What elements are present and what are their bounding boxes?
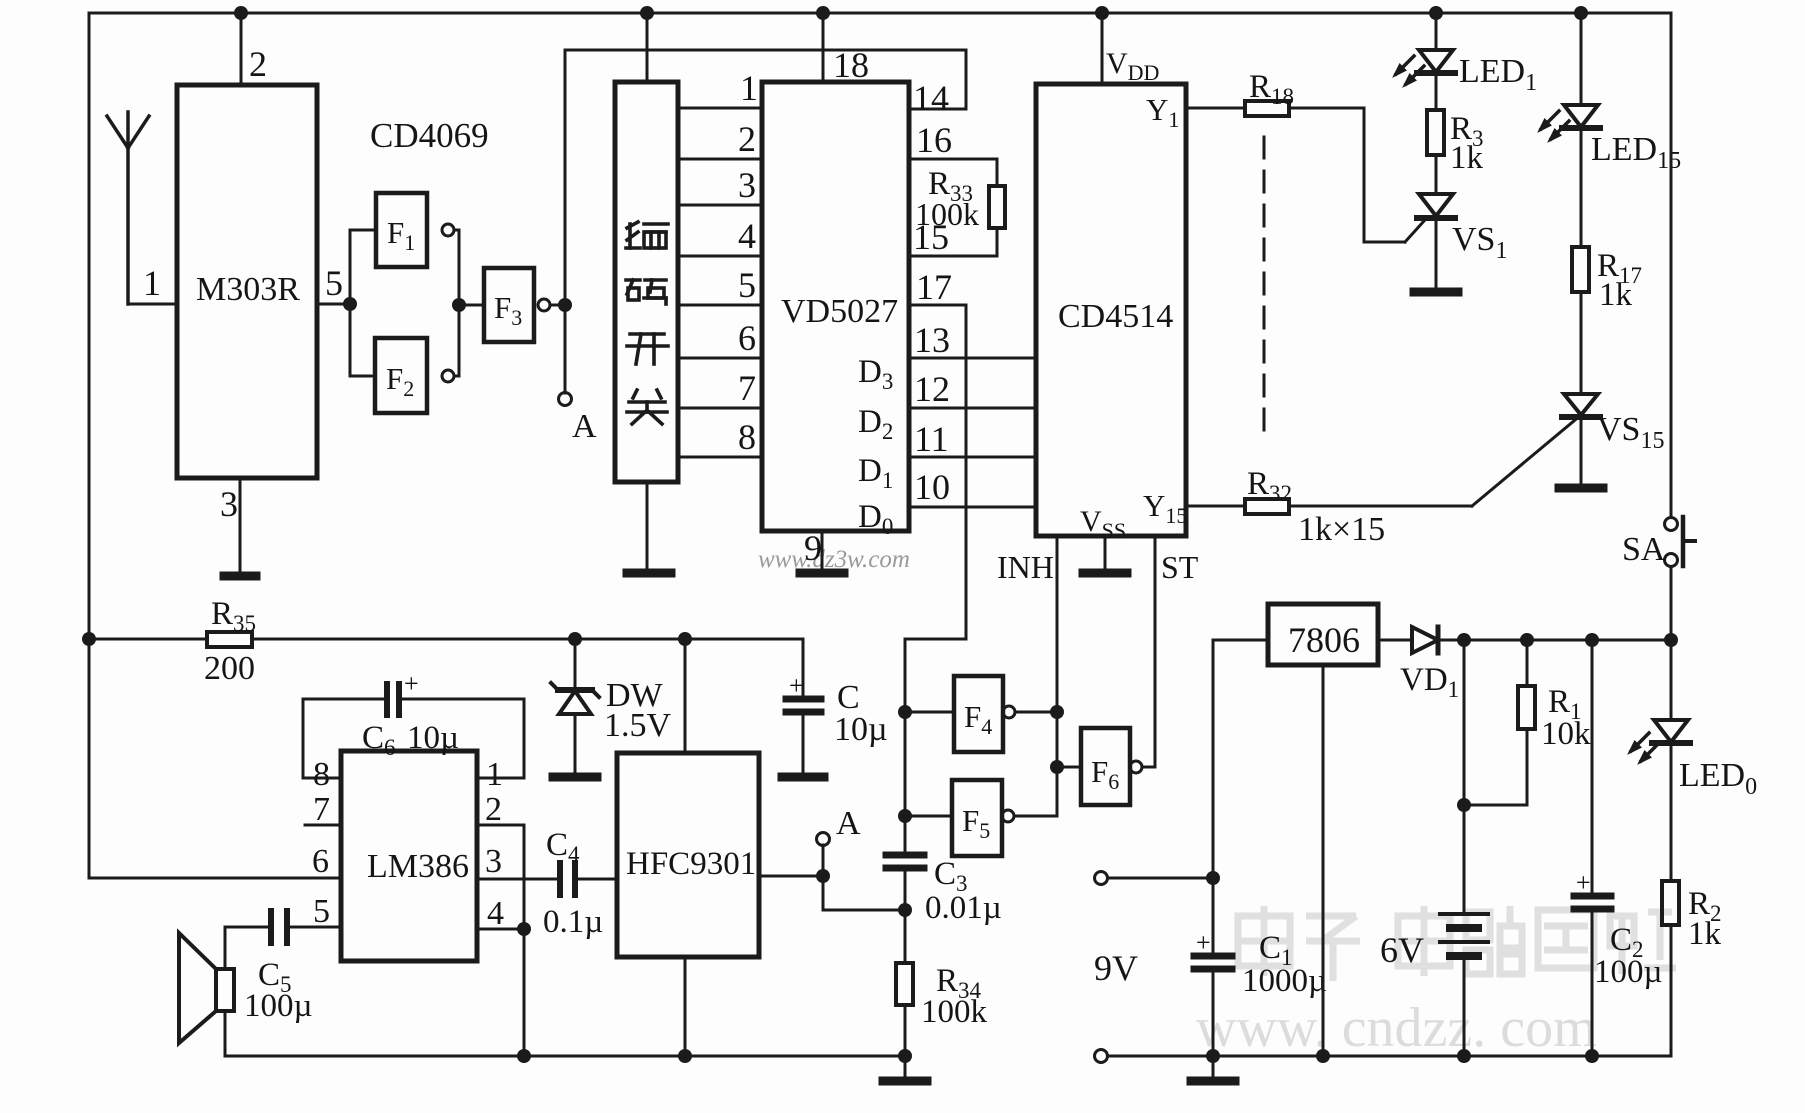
LED LED1 (1435, 13, 1438, 50)
node pin4 junction (517, 922, 531, 936)
svg-text:VS15: VS15 (1597, 411, 1664, 454)
wire battery rail R35 (82, 632, 96, 646)
svg-text:6: 6 (312, 843, 329, 880)
svg-text:LED15: LED15 (1591, 131, 1681, 174)
svg-text:Y1: Y1 (1146, 92, 1179, 132)
wire HFC9301 bottom pin (684, 957, 687, 1056)
svg-text:R32: R32 (1247, 466, 1292, 506)
svg-text:3: 3 (738, 165, 756, 205)
svg-text:3: 3 (220, 484, 238, 524)
IC U1 M303R (177, 85, 317, 478)
svg-text:17: 17 (916, 267, 952, 307)
node F5 input (898, 809, 912, 823)
wire VD5027 pin12 D2 (909, 407, 1036, 410)
wire HFC9301 output (759, 875, 823, 878)
IC U2 VD5027 (762, 82, 909, 531)
wire R18 to VS1 gate (1289, 108, 1405, 242)
wire HFC9301 top pin (684, 639, 687, 753)
capacitor C5 100u (268, 911, 274, 943)
wire coder-VD5027 pin2 (678, 158, 762, 161)
svg-text:16: 16 (916, 120, 952, 160)
node junction top coder (640, 6, 654, 20)
svg-text:LED0: LED0 (1679, 757, 1757, 800)
wire right border to SA (1670, 13, 1673, 517)
wire R3-VS1 (1435, 155, 1438, 194)
capacitor C1 1000u (1194, 953, 1232, 960)
svg-text:C6: C6 (362, 720, 396, 760)
svg-text:10µ: 10µ (834, 711, 888, 748)
svg-text:CD4514: CD4514 (1058, 298, 1173, 335)
svg-text:7: 7 (313, 791, 330, 828)
svg-text:10µ: 10µ (407, 720, 459, 756)
capacitor C4 0.1u (557, 863, 563, 895)
ground CD4514 VSS (1083, 569, 1127, 578)
svg-text:9: 9 (804, 528, 822, 568)
wire VD5027 pin10 D0 (909, 506, 1036, 509)
svg-text:1k: 1k (1450, 140, 1484, 176)
svg-text:9V: 9V (1094, 948, 1138, 988)
inverter F4 (905, 711, 954, 714)
svg-text:1000µ: 1000µ (1242, 963, 1327, 999)
inverter F3 (484, 268, 534, 342)
svg-text:2: 2 (485, 791, 502, 828)
node junction top VD5027 pin18 (816, 6, 830, 20)
resistor R1 10k (1526, 640, 1529, 686)
wire coder top (646, 13, 649, 82)
resistor R3 1k (1427, 110, 1444, 155)
capacitor C6 10u (384, 684, 390, 715)
node C1 rail (1206, 1049, 1220, 1063)
resistor R17 1k (1572, 247, 1589, 292)
svg-text:1: 1 (143, 263, 161, 303)
wire 7806 output (1378, 639, 1412, 642)
ground M303R pin3 (224, 572, 256, 581)
svg-text:14: 14 (913, 78, 949, 118)
terminal 9V plus (1095, 872, 1108, 885)
svg-text:0.1µ: 0.1µ (543, 904, 603, 940)
wire VD5027 pin9 (821, 531, 824, 568)
node F6 in (1050, 760, 1064, 774)
capacitor C 10u (802, 639, 805, 697)
wire M303R pin3 (239, 478, 242, 572)
svg-text:F4: F4 (964, 699, 992, 739)
wire LM386 pin5 (289, 926, 341, 929)
svg-text:1: 1 (486, 756, 503, 793)
inverter F2 (375, 338, 427, 413)
resistor R32 (1245, 499, 1289, 514)
svg-text:12: 12 (914, 369, 950, 409)
node junction top M303R pin2 (234, 6, 248, 20)
ground C (782, 773, 824, 782)
wire CD4514 ST (1154, 536, 1157, 767)
node junction top LED1 (1429, 6, 1443, 20)
wire CD4514 INH (1056, 536, 1059, 816)
wire F1/F2 output merge (458, 230, 461, 376)
wire coder-VD5027 pin6 (678, 357, 762, 360)
switch block coding switch (bian ma kai guan) (615, 82, 678, 482)
resistor R2 1k (1662, 881, 1679, 925)
svg-text:Y15: Y15 (1143, 488, 1187, 528)
svg-text:5: 5 (738, 265, 756, 305)
svg-text:www. cndzz. com: www. cndzz. com (1196, 997, 1597, 1059)
svg-text:100µ: 100µ (1594, 954, 1663, 990)
wire LED15-R17 (1580, 128, 1583, 247)
svg-text:10k: 10k (1541, 716, 1591, 752)
wire LM386 pin4 (477, 928, 524, 931)
svg-text:1k×15: 1k×15 (1298, 511, 1385, 548)
node rail HFC9301 (678, 1049, 692, 1063)
wire R1 to battery top (1464, 729, 1527, 805)
svg-text:3: 3 (485, 843, 502, 880)
wire coder-VD5027 pin3 (678, 204, 762, 207)
wire coder-VD5027 pin8 (678, 456, 762, 459)
wire F1/F2 input branch (349, 230, 352, 376)
battery GB 6V (1463, 640, 1466, 913)
svg-text:F2: F2 (386, 361, 414, 401)
wire C5 to speaker (225, 926, 271, 929)
label coder char kai (627, 334, 668, 364)
svg-text:F6: F6 (1091, 754, 1119, 794)
wire 7806 input (1213, 640, 1268, 954)
wire coder-VD5027 pin1 (678, 107, 762, 110)
svg-text:100µ: 100µ (244, 988, 313, 1024)
inverter F6 (1057, 766, 1081, 769)
svg-text:1k: 1k (1599, 277, 1633, 313)
wire SA to positive node (1670, 567, 1673, 640)
wire LED1-R3 (1435, 73, 1438, 110)
wire VD5027 pin18 (822, 13, 825, 82)
svg-text:LM386: LM386 (367, 848, 469, 885)
wire LM386 pin3 output (477, 878, 558, 881)
svg-text:+: + (1576, 868, 1591, 897)
svg-text:VS1: VS1 (1452, 221, 1507, 264)
svg-text:2: 2 (738, 119, 756, 159)
svg-text:0.01µ: 0.01µ (925, 890, 1002, 926)
svg-text:ST: ST (1161, 549, 1199, 585)
svg-text:5: 5 (325, 263, 343, 303)
label coder char bian (626, 222, 668, 248)
watermark cndzz glyphs (1238, 906, 1676, 981)
wire pin4 down to ground rail (523, 929, 526, 1056)
capacitor C2 100u (1591, 640, 1594, 894)
node HFC9301 top junction (678, 632, 692, 646)
node DW junction (568, 632, 582, 646)
diode VD1 (1412, 627, 1438, 653)
wire VS1 cathode (1435, 218, 1438, 288)
ground DW (553, 773, 597, 782)
svg-text:R18: R18 (1249, 69, 1294, 109)
node F3 output (558, 298, 572, 312)
svg-text:8: 8 (313, 756, 330, 793)
wire LM386 pin8 loop C6 (303, 699, 385, 778)
svg-text:11: 11 (914, 419, 949, 459)
wire R35 to C (252, 638, 803, 641)
wire VD5027 pin15 (909, 255, 997, 258)
wire coder-VD5027 pin4 (678, 255, 762, 258)
svg-text:2: 2 (249, 44, 267, 84)
svg-text:18: 18 (833, 45, 869, 85)
resistor R33 100k (996, 159, 999, 186)
svg-text:VD5027: VD5027 (781, 293, 898, 330)
IC U3 CD4514 (1036, 84, 1186, 536)
wire M303R pin2 (240, 13, 243, 85)
svg-text:D1: D1 (858, 453, 893, 493)
wire LM386 pin7 stub (305, 824, 341, 827)
svg-text:D3: D3 (858, 354, 893, 394)
svg-text:5: 5 (313, 893, 330, 930)
terminal A lower (822, 845, 825, 876)
LED LED15 (1580, 13, 1583, 105)
svg-text:13: 13 (914, 320, 950, 360)
svg-text:200: 200 (204, 650, 255, 687)
node junction top CD4514 VDD (1095, 6, 1109, 20)
wire R34 to ground rail (904, 1005, 907, 1056)
svg-text:LED1: LED1 (1459, 53, 1537, 96)
svg-text:7806: 7806 (1288, 620, 1360, 660)
wire LM386 pin2 (477, 825, 524, 929)
resistor R34 100k (904, 910, 907, 963)
thyristor VS15 (1564, 394, 1598, 415)
wire coder-VD5027 pin7 (678, 407, 762, 410)
IC U4 LM386 (341, 751, 477, 961)
svg-text:15: 15 (913, 217, 949, 257)
wire M303R pin5 (317, 303, 350, 306)
wire VD5027 pin11 D1 (909, 456, 1036, 459)
capacitor C3 0.01u (886, 852, 924, 859)
switch SA (1665, 518, 1678, 531)
wire ground rail left (225, 1055, 905, 1058)
wire LED0-R2 (1670, 743, 1673, 881)
wire coder bottom (646, 482, 649, 568)
antenna (107, 112, 149, 304)
ground VS15 (1559, 484, 1603, 493)
wire R2 to ground rail (1592, 925, 1671, 1056)
svg-text:4: 4 (738, 216, 756, 256)
ground VS1 (1414, 288, 1458, 297)
wire R32 to VS15 gate (1289, 505, 1472, 508)
svg-text:A: A (572, 408, 597, 445)
svg-text:4: 4 (487, 895, 504, 932)
resistor R18 (1245, 101, 1289, 116)
svg-text:F1: F1 (387, 215, 415, 255)
svg-text:VSS: VSS (1080, 505, 1126, 543)
LED LED0 (1670, 640, 1673, 719)
wire VD5027 pin13 D3 (909, 357, 1036, 360)
wire VD5027 pin16 (909, 158, 997, 161)
resistor R35 200 (207, 632, 252, 647)
svg-text:6V: 6V (1380, 930, 1424, 970)
speaker BL (224, 927, 227, 1056)
svg-text:CD4069: CD4069 (370, 116, 489, 155)
svg-text:M303R: M303R (196, 271, 300, 308)
svg-text:7: 7 (738, 368, 756, 408)
node F4 input (898, 705, 912, 719)
inverter F5 (905, 815, 952, 818)
svg-text:100k: 100k (921, 994, 988, 1030)
svg-text:F3: F3 (494, 290, 522, 330)
node rail pin4 (517, 1049, 531, 1063)
svg-text:R35: R35 (211, 596, 256, 636)
svg-text:D0: D0 (858, 499, 893, 539)
wire M303R pin1 (128, 303, 177, 306)
wire dashed Y2..Y14 (1263, 137, 1266, 439)
svg-text:8: 8 (738, 417, 756, 457)
svg-text:C4: C4 (546, 827, 580, 867)
wire CD4514 VSS (1104, 536, 1107, 568)
wire output to C3 node (823, 876, 905, 910)
node F4 out INH (1050, 705, 1064, 719)
IC U6 7806 (1268, 604, 1378, 665)
ground VD5027 pin9 (800, 569, 844, 578)
wire VS15 cathode (1580, 417, 1583, 484)
svg-text:VD1: VD1 (1400, 662, 1459, 702)
wire LM386 pin6 supply (89, 877, 341, 880)
svg-text:INH: INH (997, 549, 1054, 585)
svg-text:1: 1 (740, 68, 758, 108)
ground coder (627, 569, 671, 578)
ground C1 (1212, 1056, 1215, 1077)
svg-text:F5: F5 (962, 803, 990, 843)
wire 6V positive rail (1438, 639, 1671, 642)
ground R34 (904, 1056, 907, 1077)
node pin5 split (343, 297, 357, 311)
svg-text:HFC9301: HFC9301 (626, 846, 756, 882)
svg-text:6: 6 (738, 318, 756, 358)
svg-text:A: A (836, 805, 861, 842)
svg-text:VDD: VDD (1106, 47, 1159, 85)
node junction top LED15 (1574, 6, 1588, 20)
wire C4 to HFC9301 (577, 878, 617, 881)
svg-text:SA: SA (1622, 531, 1666, 568)
wire F3 output up to VD5027 pin14 (565, 50, 966, 305)
terminal 9V minus (1095, 1050, 1108, 1063)
wire top supply rail (89, 12, 1671, 15)
svg-text:+: + (789, 671, 804, 700)
svg-text:10: 10 (914, 467, 950, 507)
wire CD4514 VDD (1101, 13, 1104, 84)
zener DW 1.5V (574, 639, 577, 690)
terminal A upper (564, 305, 567, 393)
label coder char guan (627, 390, 667, 424)
thyristor VS1 (1419, 194, 1453, 216)
wire 7806 gnd pin (1322, 665, 1325, 1056)
IC U5 HFC9301 (617, 753, 759, 957)
svg-text:1.5V: 1.5V (604, 707, 672, 744)
wire Y15 output (1186, 505, 1245, 508)
svg-text:1k: 1k (1688, 916, 1722, 952)
wire VD5027 pin17 to F4/F5 rail (905, 305, 966, 851)
svg-text:D2: D2 (858, 404, 893, 444)
label coder char ma (626, 280, 666, 304)
wire left border (88, 13, 91, 878)
wire Y1 output (1186, 107, 1245, 110)
wire R17-VS15 (1580, 292, 1583, 394)
wire coder-VD5027 pin5 (678, 304, 762, 307)
svg-text:+: + (404, 669, 419, 698)
svg-text:+: + (1196, 928, 1211, 957)
inverter F1 (376, 193, 427, 267)
